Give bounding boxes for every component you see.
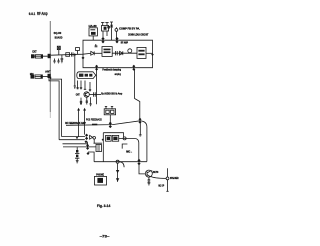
svg-text:–73–: –73–: [100, 235, 110, 239]
transformer T1 box: [96, 145, 102, 152]
amplifier block RF AMP: [102, 47, 112, 57]
junction node E1: [86, 144, 89, 150]
label RF AMP small: [121, 42, 128, 45]
resistor R1 drop: [74, 55, 76, 89]
junction node E2: [87, 152, 90, 155]
connector J2 label: [30, 73, 34, 76]
junction node F2: [137, 159, 140, 165]
junction node D5: [85, 140, 88, 143]
transistor Q4: [128, 49, 132, 53]
connector J1 plug: [31, 54, 35, 58]
svg-text:POS FEEDBACK: POS FEEDBACK: [86, 118, 102, 121]
collector wire to speaker node: [151, 176, 166, 178]
junction circle C2: [123, 137, 126, 140]
transistor Q2: [145, 170, 152, 177]
wire L-bend from J2 to bus A: [51, 77, 62, 137]
svg-text:fb Amp: fb Amp: [115, 92, 122, 95]
switch block top wire: [103, 133, 123, 138]
capacitor C4 tick: [72, 52, 74, 56]
label CNT: [76, 94, 80, 97]
emitter resistor R8 to ground: [147, 177, 150, 185]
wire K1 to bus: [103, 31, 107, 40]
label positive feedback: [115, 92, 122, 95]
wire row1: [35, 53, 91, 56]
svg-text:SPEAKER: SPEAKER: [170, 177, 179, 180]
capacitor C11 inside box: [95, 44, 98, 47]
capacitor C3 to ground: [61, 55, 64, 63]
label 8 ohm: [158, 185, 164, 187]
junction node D2: [85, 134, 88, 140]
filter block FL1: [104, 109, 115, 115]
bus B wire turn: [59, 139, 85, 141]
meter box M1: [89, 28, 97, 36]
caption Fig 3-14: [97, 204, 110, 208]
label 2SC733: [153, 172, 159, 174]
wire corner down: [135, 138, 139, 162]
junction node right edge: [151, 53, 154, 56]
wire jog right: [140, 121, 147, 162]
wire feedback row upper: [63, 143, 88, 145]
wire node D5 down: [87, 142, 89, 147]
junction circle D4: [93, 137, 96, 140]
switch S2 box: [112, 135, 118, 141]
switch S1 box: [106, 135, 112, 141]
wire row2: [35, 75, 48, 77]
svg-text:RF FEEDBACK AMP: RF FEEDBACK AMP: [65, 122, 86, 125]
label feedback amp row1: [86, 118, 102, 121]
capacitor C2: [57, 59, 60, 64]
coil L1 on wire: [66, 53, 70, 57]
headphone drop with arrows: [117, 163, 119, 182]
callout bubble parts list: [77, 72, 96, 79]
board boundary fade: [49, 112, 51, 118]
capacitor C1: [53, 59, 56, 64]
resistor R2: [76, 81, 78, 89]
trimmer box above wire: [57, 46, 60, 49]
label ANT: [45, 70, 51, 74]
resistor R6: [86, 97, 88, 104]
capacitor C12 tick: [116, 51, 118, 55]
label SQ-80 BOARD: [54, 31, 63, 39]
resistor R7 to ground: [89, 97, 91, 106]
svg-text:CNT: CNT: [76, 94, 80, 97]
junction node D1: [76, 137, 78, 139]
amplifier block AM AMP: [137, 47, 146, 58]
junction circle F1: [116, 160, 119, 163]
feedback drop wire: [135, 69, 140, 119]
trimmer box above wire 2: [76, 48, 80, 51]
page number: [100, 235, 110, 239]
feedback line vertical: [96, 68, 98, 105]
capacitor stub below node B3: [139, 123, 142, 137]
label COMP FB BY PASS: [119, 27, 140, 30]
node A junction: [73, 53, 76, 56]
junction node B1: [109, 122, 112, 128]
svg-text:RF Amp: RF Amp: [37, 11, 48, 16]
svg-text:CONN LEAD CIRCUIT: CONN LEAD CIRCUIT: [128, 33, 149, 36]
connector J2 plug: [31, 74, 35, 78]
diode D2: [120, 51, 123, 55]
transistor Q5 dot: [108, 26, 110, 28]
junction node C1: [102, 139, 104, 141]
junction box on board line row1: [48, 54, 51, 58]
svg-text:EXT: EXT: [32, 51, 37, 54]
connector J2 jack: [35, 75, 42, 78]
arrow stub 1: [78, 109, 80, 137]
svg-text:ANT: ANT: [45, 70, 51, 74]
wire feedback row: [63, 146, 96, 148]
bus A wire turn: [62, 136, 86, 138]
wire step to bottom row: [88, 152, 94, 162]
junction node left edge: [82, 56, 85, 59]
capacitor C14 to ground: [80, 98, 82, 105]
connector J1 jack: [35, 55, 42, 58]
capacitor C10 polarized: [110, 22, 113, 25]
board boundary line SQ-80: [49, 21, 51, 112]
svg-text:BOARD: BOARD: [55, 35, 63, 39]
diode D1: [91, 51, 94, 55]
resistor R3: [80, 81, 82, 89]
label CONN LEAD CIRCUIT: [128, 33, 149, 36]
label dash on line: [92, 124, 97, 126]
outer block CONN LEAD CIRCUIT box: [83, 40, 153, 67]
capacitor C13 tick: [94, 92, 96, 97]
capacitor C15 stack: [76, 147, 78, 150]
speaker wire vertical: [166, 168, 168, 191]
junction circle SP: [166, 177, 169, 180]
wire Q1 out: [89, 94, 101, 96]
arrow stub 2: [84, 109, 86, 135]
wire to RF amp: [94, 52, 102, 54]
svg-text:Fig. 3-14: Fig. 3-14: [97, 204, 110, 208]
label Rx audio: [101, 92, 115, 95]
svg-text:amping: amping: [115, 74, 122, 76]
title text 9.8.1 RF Amp: [29, 11, 48, 16]
connector J1 label: [32, 51, 37, 54]
phone jack box: [95, 176, 107, 185]
svg-text:Feedback damping: Feedback damping: [102, 68, 121, 71]
transistor Q1: [84, 92, 89, 97]
wire bracket: [122, 144, 127, 149]
svg-text:8Ω SP: 8Ω SP: [158, 185, 164, 187]
top-left box HA-80 label: [89, 25, 98, 28]
wire junction to phone: [119, 162, 124, 168]
wire S2 to node: [119, 137, 136, 139]
junction node top edge 1: [101, 37, 104, 43]
test point TP1 circle: [115, 29, 118, 32]
filter block FL1 pins: [105, 106, 113, 108]
wire L-bend to bus B: [49, 78, 59, 140]
resistor R5: [89, 82, 91, 91]
diode D3: [90, 135, 93, 139]
junction node bottom edge 1: [95, 65, 98, 71]
wire to Q2 base: [139, 164, 145, 174]
svg-text:9.8.1: 9.8.1: [29, 11, 36, 16]
return wire horizontal: [66, 121, 140, 126]
resistor R4: [84, 81, 86, 90]
wire RF AMP out: [112, 52, 137, 54]
label PHONE: [96, 174, 104, 177]
wire from M1: [92, 36, 94, 40]
svg-text:MIC→: MIC→: [126, 150, 132, 153]
svg-text:2SC733: 2SC733: [153, 172, 159, 174]
svg-text:RF AMP: RF AMP: [121, 42, 128, 45]
junction box on board line row2: [48, 74, 51, 78]
label SPEAKER: [170, 177, 179, 180]
junction node bottom edge 2: [132, 65, 135, 71]
switch block left wire: [102, 133, 104, 162]
bottom bus wire: [94, 161, 147, 163]
relay K1 tops: [101, 22, 109, 25]
svg-text:Rx AUDIO SIG: Rx AUDIO SIG: [101, 92, 115, 95]
label MIC AMP: [126, 150, 132, 153]
label feedback amp row2: [65, 122, 86, 125]
junction node B3: [139, 118, 142, 124]
transformer T1 feed: [94, 139, 103, 143]
svg-text:COMP FB BY PA.: COMP FB BY PA.: [119, 27, 140, 30]
junction node top edge 2: [115, 37, 118, 43]
label Feedback damping: [102, 68, 121, 71]
relay K1 box: [102, 26, 109, 32]
wire AM AMP out: [146, 52, 153, 54]
